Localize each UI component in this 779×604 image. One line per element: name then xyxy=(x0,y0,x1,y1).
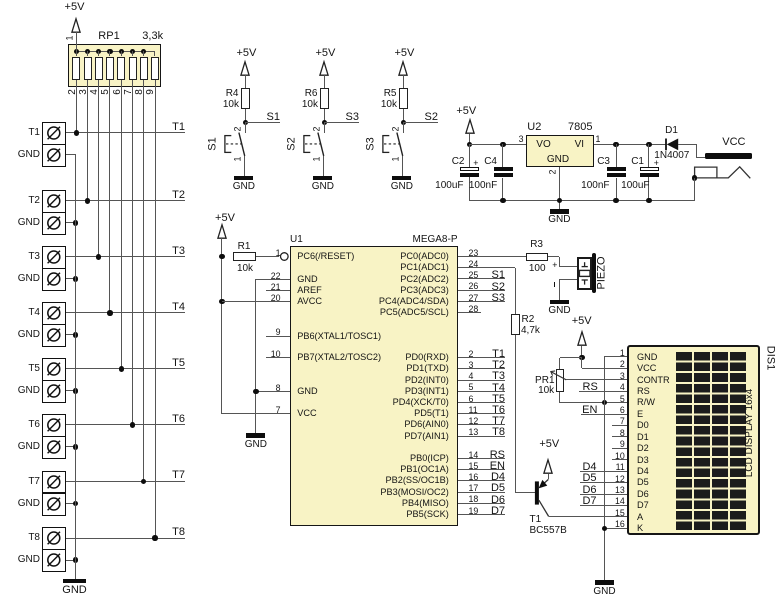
wire R4 to node S1 xyxy=(245,109,246,123)
RP1 element 6 xyxy=(129,57,137,80)
wire R1 to pin 1 xyxy=(256,256,280,257)
net label T4 xyxy=(492,383,505,394)
U1 pin 16 PB2(SS/OC1B) xyxy=(469,473,479,482)
junction T6 xyxy=(130,422,135,427)
terminal label GND xyxy=(18,150,40,160)
LCD pin 6 E xyxy=(620,406,625,415)
piezo disc bar xyxy=(592,253,596,293)
U1 pin 27 PC4(ADC4/SDA) xyxy=(469,294,479,303)
net label D6 xyxy=(491,495,505,506)
wire pin 19 net D7 xyxy=(458,514,505,515)
transistor T1 BC557B xyxy=(528,475,568,520)
wire GND stub T4 xyxy=(66,334,76,335)
wire R6 to node S3 xyxy=(324,109,325,123)
wire RP1 pin 9 to T8 xyxy=(155,80,156,539)
wire pin 27 net S3 xyxy=(458,301,505,302)
terminal label T8 xyxy=(28,533,40,543)
net label D5 xyxy=(491,483,505,494)
terminal label GND xyxy=(18,555,40,565)
junction C3 xyxy=(613,142,618,147)
minus sign piezo xyxy=(554,282,555,287)
U1 pin 1 reset bubble xyxy=(279,251,291,263)
GND vertical U1 xyxy=(255,279,256,433)
stub LCD data xyxy=(612,436,627,437)
net label D4 xyxy=(491,472,505,483)
wire T2 to bus xyxy=(66,200,186,201)
junction U2 GND rail xyxy=(557,198,562,203)
net label T7 xyxy=(172,470,185,481)
resistor R6 10k xyxy=(320,88,330,109)
switch name S1 xyxy=(207,137,218,150)
terminal block T2/GND xyxy=(42,190,66,235)
junction GND bus xyxy=(73,276,78,281)
LCD pin 7 D0 xyxy=(620,417,625,426)
wire pin 18 net D6 xyxy=(458,503,505,504)
+5V vertical rail U1 xyxy=(221,257,222,414)
node +5V rail junction xyxy=(467,142,472,147)
LCD pin 4 RS xyxy=(620,383,625,392)
wire pin 23 to R3 xyxy=(458,256,526,257)
wire pin 5 net T4 xyxy=(458,391,505,392)
wire T8 to bus xyxy=(66,538,186,539)
wire D7 xyxy=(580,505,627,506)
RP1 element 8 xyxy=(151,57,159,80)
GND bus vertical xyxy=(75,155,76,579)
net label T4 xyxy=(172,302,185,313)
net label S3 xyxy=(346,112,359,123)
RP1 pin 1 label xyxy=(66,36,75,41)
DIS1 designator xyxy=(764,346,775,370)
RP1 element 2 xyxy=(84,57,92,80)
resistor R5 10k xyxy=(399,88,409,109)
switch S2 xyxy=(324,123,325,133)
wire RP1 pin 5 to T4 xyxy=(109,80,110,314)
capacitor C2 100uF xyxy=(469,144,470,167)
U1 pin 2 PD0(RXD) xyxy=(469,350,474,359)
U2 pin 3 xyxy=(519,135,524,144)
plus sign piezo xyxy=(552,261,557,270)
+5V supply at R5 xyxy=(394,48,414,59)
junction R/W GND xyxy=(602,400,607,405)
U1 pin 6 PD4(XCK/T0) xyxy=(469,395,474,404)
terminal block T6/GND xyxy=(42,414,66,459)
ground symbol S1 xyxy=(234,176,253,181)
microcontroller U1 MEGA8-P xyxy=(290,246,458,526)
wire pin 24 to R2 xyxy=(458,267,515,268)
net label EN xyxy=(582,405,597,416)
junction T8 xyxy=(152,535,157,540)
RP1 element 5 xyxy=(117,57,125,80)
RP1 element 4 xyxy=(106,57,114,80)
junction AVCC xyxy=(219,299,224,304)
junction T2 xyxy=(85,198,90,203)
wire U2 GND xyxy=(559,167,560,209)
wire GND stub T6 xyxy=(66,446,76,447)
U1 pin 4 PD2(INT0) xyxy=(469,372,474,381)
RP1 element 1 xyxy=(72,57,80,80)
wire pin 26 net S2 xyxy=(458,290,505,291)
LCD pin 14 D7 xyxy=(615,497,625,506)
terminal block T1/GND xyxy=(42,122,66,167)
wire D5 xyxy=(580,482,627,483)
net label T1 xyxy=(492,349,505,360)
U1 pin 20 AVCC xyxy=(271,294,281,303)
net label T8 xyxy=(492,427,505,438)
wire T7 to bus xyxy=(66,481,186,482)
piezo label xyxy=(597,256,608,289)
potentiometer PR1 10k xyxy=(556,369,564,391)
U1 pin 7 VCC xyxy=(276,406,281,415)
junction pin 8 xyxy=(253,389,258,394)
wire RP1 pin 4 to T3 xyxy=(98,80,99,258)
VCC terminal xyxy=(705,153,752,159)
wire D6 xyxy=(580,494,627,495)
wire pin 11 net T6 xyxy=(458,413,505,414)
wire PR1 bottom to R/W xyxy=(559,392,560,403)
U1 pin 23 PC0(ADC0) xyxy=(469,249,479,258)
U1 pin 9 PB6(XTAL1/TOSC1) xyxy=(276,328,281,337)
LCD pin 13 D6 xyxy=(615,486,625,495)
node S3 junction xyxy=(322,120,327,125)
junction GND bus xyxy=(73,332,78,337)
U1 pin 25 PC2(ADC2) xyxy=(469,271,479,280)
U1 pin 28 PC5(ADC5/SCL) xyxy=(469,305,479,314)
LCD pin 10 D3 xyxy=(615,452,625,461)
stub LCD data xyxy=(612,459,627,460)
U1 pin 12 PD6(AIN0) xyxy=(469,417,479,426)
stub LCD data xyxy=(612,448,627,449)
wire GND stub T2 xyxy=(66,222,76,223)
wire pin 25 net S1 xyxy=(458,278,505,279)
terminal block T8/GND xyxy=(42,527,66,572)
wire R5 to node S2 xyxy=(403,109,404,123)
net label D7 xyxy=(582,496,596,507)
wire D1 anode to VCC xyxy=(678,144,696,145)
+5V supply at T1 xyxy=(539,439,559,450)
LCD character matrix xyxy=(676,352,692,532)
ground symbol terminals xyxy=(63,579,86,584)
wire RP1 pin 8 to T7 xyxy=(143,80,144,482)
wire to net label S1 xyxy=(245,122,280,123)
net label T2 xyxy=(172,190,185,201)
wire GND stub T5 xyxy=(66,390,76,391)
wire pin 22 GND xyxy=(256,279,290,280)
LCD pin 3 CONTR xyxy=(620,372,625,381)
node S2 junction xyxy=(401,120,406,125)
LCD pin 8 D1 xyxy=(620,429,625,438)
DC power jack xyxy=(690,162,756,182)
wire to net label S3 xyxy=(324,122,359,123)
LCD pin 12 D5 xyxy=(615,475,625,484)
terminal label T2 xyxy=(28,196,40,206)
diode D1 1N4007 xyxy=(660,136,700,154)
net label D5 xyxy=(582,473,596,484)
stub pin 9 xyxy=(266,336,290,337)
resistor R2 4,7k xyxy=(511,314,520,336)
junction GND bus xyxy=(73,557,78,562)
wire to net label S2 xyxy=(403,122,438,123)
wire pin 13 net T8 xyxy=(458,436,505,437)
terminal label T1 xyxy=(28,128,40,138)
U1 pin 5 PD3(INT1) xyxy=(469,383,474,392)
LCD pin 9 D2 xyxy=(620,440,625,449)
wire R2 to T1 base xyxy=(515,335,516,493)
wire D4 xyxy=(580,471,627,472)
stub AREF pin 21 xyxy=(266,290,289,291)
U1 pin 13 PD7(AIN1) xyxy=(469,428,479,437)
RP1 common bus (pin 1) xyxy=(76,51,155,52)
net label RS xyxy=(490,450,505,461)
capacitor C1 100uF xyxy=(648,144,649,167)
wire pin 12 net T7 xyxy=(458,424,505,425)
net label T6 xyxy=(172,414,185,425)
RP1 element 7 xyxy=(140,57,148,80)
U1 pin 22 GND xyxy=(271,272,281,281)
junction T1 xyxy=(74,130,79,135)
ground symbol U2 xyxy=(550,209,569,214)
net label T6 xyxy=(492,405,505,416)
terminal block T4/GND xyxy=(42,302,66,347)
junction GND bus xyxy=(73,220,78,225)
U1 pin 15 PB1(OC1A) xyxy=(469,462,479,471)
resistor R3 100 xyxy=(526,253,548,262)
wire pin 17 net D5 xyxy=(458,492,505,493)
wire +5V to PR1 xyxy=(560,357,582,358)
terminal label T4 xyxy=(28,308,40,318)
wire T3 to bus xyxy=(66,256,186,257)
wire jack to ground rail xyxy=(694,178,695,200)
wire pin 8 GND xyxy=(256,391,290,392)
stub pin 28 xyxy=(458,312,481,313)
resistor network RP1 xyxy=(68,44,161,87)
terminal block T3/GND xyxy=(42,246,66,291)
net label T3 xyxy=(172,246,185,257)
LCD pin 11 D4 xyxy=(616,463,625,472)
stub LCD data xyxy=(612,425,627,426)
net label S1 xyxy=(492,270,505,281)
net label T5 xyxy=(492,394,505,405)
piezo sounder xyxy=(577,257,593,291)
ground rail xyxy=(469,200,695,201)
wire switch S2 to ground xyxy=(323,156,324,176)
wire T4 to bus xyxy=(66,312,186,313)
switch name S2 xyxy=(286,137,297,150)
+5V supply at LCD xyxy=(572,316,592,327)
terminal block T5/GND xyxy=(42,358,66,403)
LCD pin 2 VCC xyxy=(620,360,625,369)
resistor R4 10k xyxy=(241,88,251,109)
LCD ground vertical xyxy=(604,357,605,580)
wire R3 to piezo plus xyxy=(548,256,559,257)
U2 pin 1 xyxy=(596,135,601,144)
+5V supply output of regulator xyxy=(456,106,476,117)
wire AVCC pin 20 xyxy=(222,301,290,302)
terminal block T7/GND xyxy=(42,471,66,516)
terminal label T3 xyxy=(28,252,40,262)
LCD type label xyxy=(745,389,755,478)
terminal label GND xyxy=(18,330,40,340)
net label S2 xyxy=(425,112,438,123)
terminal label T7 xyxy=(28,477,40,487)
wire switch S1 to ground xyxy=(244,156,245,176)
wire EN stub xyxy=(581,414,627,415)
wire T1 to bus xyxy=(66,132,186,133)
net label S2 xyxy=(492,282,505,293)
LCD pin 1 GND xyxy=(620,349,625,358)
U1 type MEGA8-P xyxy=(412,235,457,245)
ground symbol piezo xyxy=(550,300,569,305)
wire switch S3 to ground xyxy=(402,156,403,176)
wire RS stub xyxy=(579,391,627,392)
U2 pin 2 xyxy=(549,169,558,174)
wire RP1 pin 3 to T2 xyxy=(87,80,88,202)
junction GND bus xyxy=(73,388,78,393)
+5V supply at RP1 xyxy=(65,2,85,13)
switch S1 xyxy=(245,123,246,133)
junction +5V LCD xyxy=(579,355,584,360)
LCD pin 16 K xyxy=(615,520,625,529)
U1 pin 26 PC3(ADC3) xyxy=(469,282,479,291)
net label EN xyxy=(490,461,505,472)
U1 pin 14 PB0(ICP) xyxy=(469,451,479,460)
net label T7 xyxy=(492,416,505,427)
terminal label GND xyxy=(18,218,40,228)
terminal label GND xyxy=(18,386,40,396)
wire GND stub T3 xyxy=(66,278,76,279)
capacitor C4 100nF xyxy=(502,144,503,167)
+5V supply at R6 xyxy=(315,48,335,59)
LCD pin 5 R/W xyxy=(620,395,625,404)
wire pin 15 net EN xyxy=(458,469,505,470)
ground symbol S3 xyxy=(392,176,411,181)
LCD display DIS1 xyxy=(627,345,761,535)
wire GND stub T8 xyxy=(66,560,76,561)
wire piezo minus to ground xyxy=(559,279,577,280)
net label T2 xyxy=(492,360,505,371)
wire GND stub T1 xyxy=(66,154,76,155)
wire U2 VI rail xyxy=(594,144,666,145)
U1 pin 11 PD5(T1) xyxy=(469,406,478,415)
wire T1 collector to LCD A xyxy=(549,516,627,517)
junction T4 xyxy=(107,310,112,315)
terminal label GND xyxy=(18,442,40,452)
U1 label xyxy=(290,235,303,245)
net label T5 xyxy=(172,358,185,369)
wire +5V to LCD VCC xyxy=(581,358,582,369)
junction GND bus xyxy=(73,444,78,449)
RP1 label xyxy=(98,31,119,42)
wire pin 2 net T1 xyxy=(458,357,505,358)
+5V supply at U1 xyxy=(215,213,235,224)
net label RS xyxy=(583,382,598,393)
wire T5 to bus xyxy=(66,368,186,369)
wire LCD pin 1 GND xyxy=(604,356,626,357)
resistor R1 10k xyxy=(233,252,256,260)
switch S3 xyxy=(403,123,404,133)
U1 pin 24 PC1(ADC1) xyxy=(469,260,479,269)
terminal label GND xyxy=(18,499,40,509)
wire RP1 pin 6 to T5 xyxy=(121,80,122,370)
junction C1 xyxy=(646,142,651,147)
junction T3 xyxy=(96,254,101,259)
wire PR1 wiper to CONTR xyxy=(566,379,626,380)
net label T8 xyxy=(172,527,185,538)
U1 pin 1 PC6(/RESET) xyxy=(276,249,281,258)
wire pin 16 net D4 xyxy=(458,480,505,481)
junction K GND xyxy=(602,526,607,531)
junction T5 xyxy=(119,366,124,371)
net label D4 xyxy=(582,462,596,473)
net label D7 xyxy=(491,506,505,517)
wire pin 4 net T3 xyxy=(458,380,505,381)
LCD pin 15 A xyxy=(615,509,625,518)
wire +5V rail to U2 VO xyxy=(470,144,527,145)
U1 pin 18 PB4(MISO) xyxy=(469,495,479,504)
junction GND bus xyxy=(73,501,78,506)
wire pin 3 net T2 xyxy=(458,368,505,369)
wire pin 6 net T5 xyxy=(458,402,505,403)
wire VCC pin 7 xyxy=(222,413,290,414)
junction jack sleeve xyxy=(692,175,697,180)
junction T7 xyxy=(141,479,146,484)
wire RP1 pin 2 to T1 xyxy=(76,80,77,134)
net label D6 xyxy=(582,485,596,496)
wire T6 to bus xyxy=(66,424,186,425)
+5V supply at R4 xyxy=(236,48,256,59)
ground symbol LCD xyxy=(595,580,614,585)
wire pin 14 net RS xyxy=(458,458,505,459)
net label T3 xyxy=(492,371,505,382)
wire RP1 pin 7 to T6 xyxy=(132,80,133,426)
switch name S3 xyxy=(365,137,376,150)
wire LCD pin 16 K xyxy=(604,528,626,529)
net label T1 xyxy=(172,122,185,133)
U1 pin 21 AREF xyxy=(271,283,281,292)
RP1 pin numbers 2-9 xyxy=(68,90,78,96)
capacitor C3 100nF xyxy=(616,144,617,167)
U1 pin 17 PB3(MOSI/OC2) xyxy=(469,484,479,493)
stub pin 10 xyxy=(266,357,290,358)
ground symbol U1 xyxy=(246,433,265,438)
U1 pin 19 PB5(SCK) xyxy=(469,507,479,516)
terminal label GND xyxy=(18,274,40,284)
wire GND stub T7 xyxy=(66,503,76,504)
U1 pin 3 PD1(TXD) xyxy=(469,361,474,370)
ground symbol S2 xyxy=(313,176,332,181)
junction C4 xyxy=(500,142,505,147)
U1 pin 8 GND xyxy=(276,384,281,393)
net label S1 xyxy=(267,112,280,123)
RP1 element 3 xyxy=(95,57,103,80)
terminal label T5 xyxy=(28,364,40,374)
regulator U2 7805 xyxy=(526,135,594,167)
terminal label T6 xyxy=(28,420,40,430)
junction R1 xyxy=(219,254,224,259)
RP1 value 3,3k xyxy=(142,31,163,42)
node S1 junction xyxy=(243,120,248,125)
net label S3 xyxy=(492,293,505,304)
U1 pin 10 PB7(XTAL2/TOSC2) xyxy=(271,350,281,359)
